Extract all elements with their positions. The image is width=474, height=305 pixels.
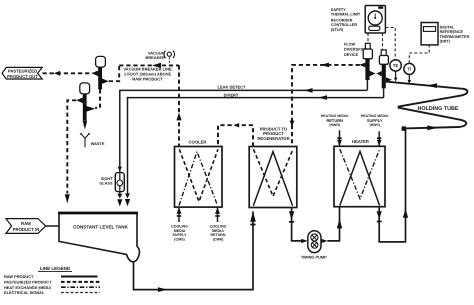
svg-text:HEATER: HEATER bbox=[352, 139, 369, 144]
arrow up into regenerator raw inlet bbox=[250, 212, 256, 222]
arrow left on vacuum breaker line bbox=[152, 63, 161, 68]
arrow down at heater HWS bbox=[377, 140, 382, 146]
svg-text:REGENERATOR: REGENERATOR bbox=[257, 136, 289, 141]
cooler box bbox=[175, 147, 223, 208]
svg-text:COOLING: COOLING bbox=[210, 224, 227, 228]
wire STLR to valve B signal bbox=[382, 33, 384, 50]
wire valve B to divert line bbox=[383, 88, 385, 97]
pasteurized product pass (dashed V) bbox=[254, 149, 294, 196]
heating media pass (dash-dot V) bbox=[340, 149, 380, 199]
svg-text:PRODUCT IN: PRODUCT IN bbox=[13, 227, 40, 232]
svg-text:COOLER: COOLER bbox=[189, 139, 207, 144]
sensor TI bbox=[404, 63, 415, 84]
DRT digital reference thermometer bbox=[421, 23, 438, 45]
constant level tank bbox=[58, 213, 139, 262]
legend LINE LEGEND bbox=[4, 266, 100, 295]
svg-text:PRODUCT OUT: PRODUCT OUT bbox=[7, 74, 38, 79]
svg-text:HEAT EXCHANGE MEDIA: HEAT EXCHANGE MEDIA bbox=[4, 285, 51, 290]
arrow up on cooler outlet riser bbox=[176, 113, 181, 121]
svg-text:DIVERSION: DIVERSION bbox=[344, 48, 365, 52]
svg-text:DIGITAL: DIGITAL bbox=[440, 26, 456, 30]
svg-text:MEDIA: MEDIA bbox=[212, 229, 224, 233]
waste funnel symbol bbox=[80, 133, 90, 147]
wire regenerator to cooler (pasteurized) bbox=[218, 125, 253, 146]
wire FDD forward flow to regenerator (pasteurized) bbox=[292, 65, 360, 147]
wire STLR to valve A signal bbox=[367, 33, 369, 43]
pasteurized product pass (dashed V) bbox=[179, 149, 218, 201]
holding tube serpentine bbox=[386, 82, 468, 129]
svg-text:(CMS): (CMS) bbox=[174, 238, 185, 242]
svg-text:(HWR): (HWR) bbox=[329, 123, 340, 127]
arrow right on holding tube bottom pass bbox=[427, 125, 437, 130]
regenerator box bbox=[249, 147, 297, 208]
svg-text:TE: TE bbox=[393, 63, 399, 68]
timing pump bbox=[301, 231, 327, 253]
valve V2 (divert/waste valve) bbox=[76, 83, 95, 130]
svg-text:(HWS): (HWS) bbox=[369, 123, 380, 127]
wire timing pump to heater bbox=[327, 207, 339, 241]
arrow down into tank from divert return bbox=[65, 194, 70, 203]
node holding tube inlet junction bbox=[402, 126, 406, 130]
svg-text:REFERENCE: REFERENCE bbox=[440, 30, 464, 34]
svg-text:RAW: RAW bbox=[21, 221, 32, 226]
arrow down on regen raw outlet bbox=[289, 211, 294, 219]
svg-text:CONTROLLER: CONTROLLER bbox=[331, 23, 358, 27]
arrow left on holding tube top pass bbox=[426, 83, 437, 88]
arrow left on divert line bbox=[318, 95, 327, 100]
wire cooling media supply stub bbox=[178, 207, 180, 222]
svg-text:THERMOMETER: THERMOMETER bbox=[440, 35, 470, 39]
svg-text:(DRT): (DRT) bbox=[440, 39, 451, 43]
vacuum breaker symbol bbox=[164, 51, 174, 64]
wire valve V1 bottom to valve V2 bbox=[95, 89, 100, 107]
svg-text:FLOW: FLOW bbox=[344, 42, 356, 46]
wire regenerator raw outlet to timing pump bbox=[292, 208, 302, 241]
wire valve V1 to vacuum breaker line bbox=[109, 65, 119, 81]
arrow down on heater outlet bbox=[377, 211, 382, 219]
valve V1 (pasteurized outlet valve) bbox=[92, 56, 109, 89]
svg-text:SUPPLY: SUPPLY bbox=[172, 233, 187, 237]
arrow up on holding tube riser bbox=[403, 208, 408, 217]
arrow up into cooler CMR bbox=[215, 208, 220, 214]
svg-text:DEVICE: DEVICE bbox=[344, 53, 359, 57]
svg-text:PASTEURIZED PRODUCT: PASTEURIZED PRODUCT bbox=[4, 280, 52, 285]
wire sight glass outlet bbox=[119, 191, 121, 194]
arrow left on leak detect line bbox=[304, 88, 313, 93]
arrow up into heater inlet bbox=[337, 219, 342, 229]
heater box bbox=[334, 146, 385, 206]
svg-text:LINE LEGEND: LINE LEGEND bbox=[40, 266, 71, 271]
arrow left at valve A forward port bbox=[359, 63, 365, 68]
svg-text:PASTEURIZED: PASTEURIZED bbox=[8, 69, 37, 74]
svg-text:RETURN: RETURN bbox=[326, 118, 343, 123]
arrow double down into tank from sight glass bbox=[117, 194, 122, 199]
svg-text:SUPPLY: SUPPLY bbox=[367, 118, 383, 123]
svg-text:DIVERT: DIVERT bbox=[224, 93, 239, 98]
svg-text:BREAKER: BREAKER bbox=[146, 55, 165, 60]
wire heating media supply stub bbox=[378, 131, 380, 146]
wire riser cooler to vacuum breaker line bbox=[178, 65, 180, 146]
svg-text:CONSTANT LEVEL TANK: CONSTANT LEVEL TANK bbox=[73, 225, 129, 230]
wire heating media return stub bbox=[339, 130, 341, 146]
sight glass bbox=[115, 173, 124, 192]
svg-text:COOLING: COOLING bbox=[171, 224, 188, 228]
wire vacuum breaker line bbox=[119, 64, 179, 66]
sensor TE bbox=[390, 60, 401, 82]
arrow right on tank outlet line bbox=[158, 287, 167, 292]
wire tank outlet to regenerator riser bbox=[134, 212, 254, 290]
svg-text:GLASS: GLASS bbox=[99, 182, 113, 186]
wire valve A to leak detect bbox=[366, 80, 368, 90]
arrow down into regenerator pasteurized inlet bbox=[290, 121, 295, 127]
svg-text:(STLR): (STLR) bbox=[331, 28, 344, 32]
arrow double down into tank from divert line bbox=[125, 193, 130, 198]
wire divert line bbox=[128, 98, 384, 194]
svg-text:HOLDING TUBE: HOLDING TUBE bbox=[417, 106, 458, 112]
banner PASTEURIZED PRODUCT OUT bbox=[2, 67, 42, 79]
wire heater outlet to holding tube riser bbox=[379, 129, 405, 242]
arrow left on regen-cooler line bbox=[234, 123, 240, 128]
raw product pass (solid lambda) bbox=[253, 152, 292, 206]
svg-text:WASTE: WASTE bbox=[91, 141, 105, 146]
wire pasteurized product out line bbox=[43, 72, 93, 74]
valve B (flow diversion valve) bbox=[376, 50, 391, 88]
svg-text:RAW PRODUCT: RAW PRODUCT bbox=[4, 274, 34, 279]
wire valve V2 to tank (divert return) bbox=[67, 100, 76, 193]
svg-text:TIMING PUMP: TIMING PUMP bbox=[301, 254, 327, 259]
svg-text:THERMAL LIMIT: THERMAL LIMIT bbox=[331, 12, 361, 16]
svg-text:MEDIA: MEDIA bbox=[174, 229, 186, 233]
wire leak detect line bbox=[120, 90, 367, 171]
arrow up into cooler CMS bbox=[177, 208, 182, 214]
product pass (solid lambda) bbox=[340, 151, 380, 205]
arrow left on forward flow line bbox=[321, 63, 329, 68]
arrow left on product out line bbox=[54, 71, 60, 76]
wire raw product in connector bbox=[46, 225, 59, 227]
svg-text:TI: TI bbox=[407, 67, 411, 72]
svg-text:(CMR): (CMR) bbox=[213, 238, 224, 242]
wire DRT to TI signal bbox=[409, 45, 429, 63]
svg-text:SIGHT: SIGHT bbox=[101, 177, 113, 181]
wire STLR to TE signal bbox=[386, 28, 396, 60]
STLR recorder controller bbox=[365, 6, 385, 34]
cooling media pass (dash-dot lambda) bbox=[179, 152, 218, 206]
arrow down at heater HWR bbox=[337, 140, 342, 146]
svg-text:RAW PRODUCT: RAW PRODUCT bbox=[132, 76, 163, 81]
wire cooling media return stub bbox=[217, 207, 219, 222]
svg-text:RETURN: RETURN bbox=[211, 233, 226, 237]
valve A (flow diversion valve) bbox=[363, 43, 375, 80]
banner RAW PRODUCT IN bbox=[6, 219, 46, 234]
svg-text:LEAK DETECT: LEAK DETECT bbox=[218, 84, 247, 89]
arrow into sight glass bbox=[118, 167, 122, 172]
svg-text:ELECTRICAL SIGNAL: ELECTRICAL SIGNAL bbox=[4, 290, 45, 295]
